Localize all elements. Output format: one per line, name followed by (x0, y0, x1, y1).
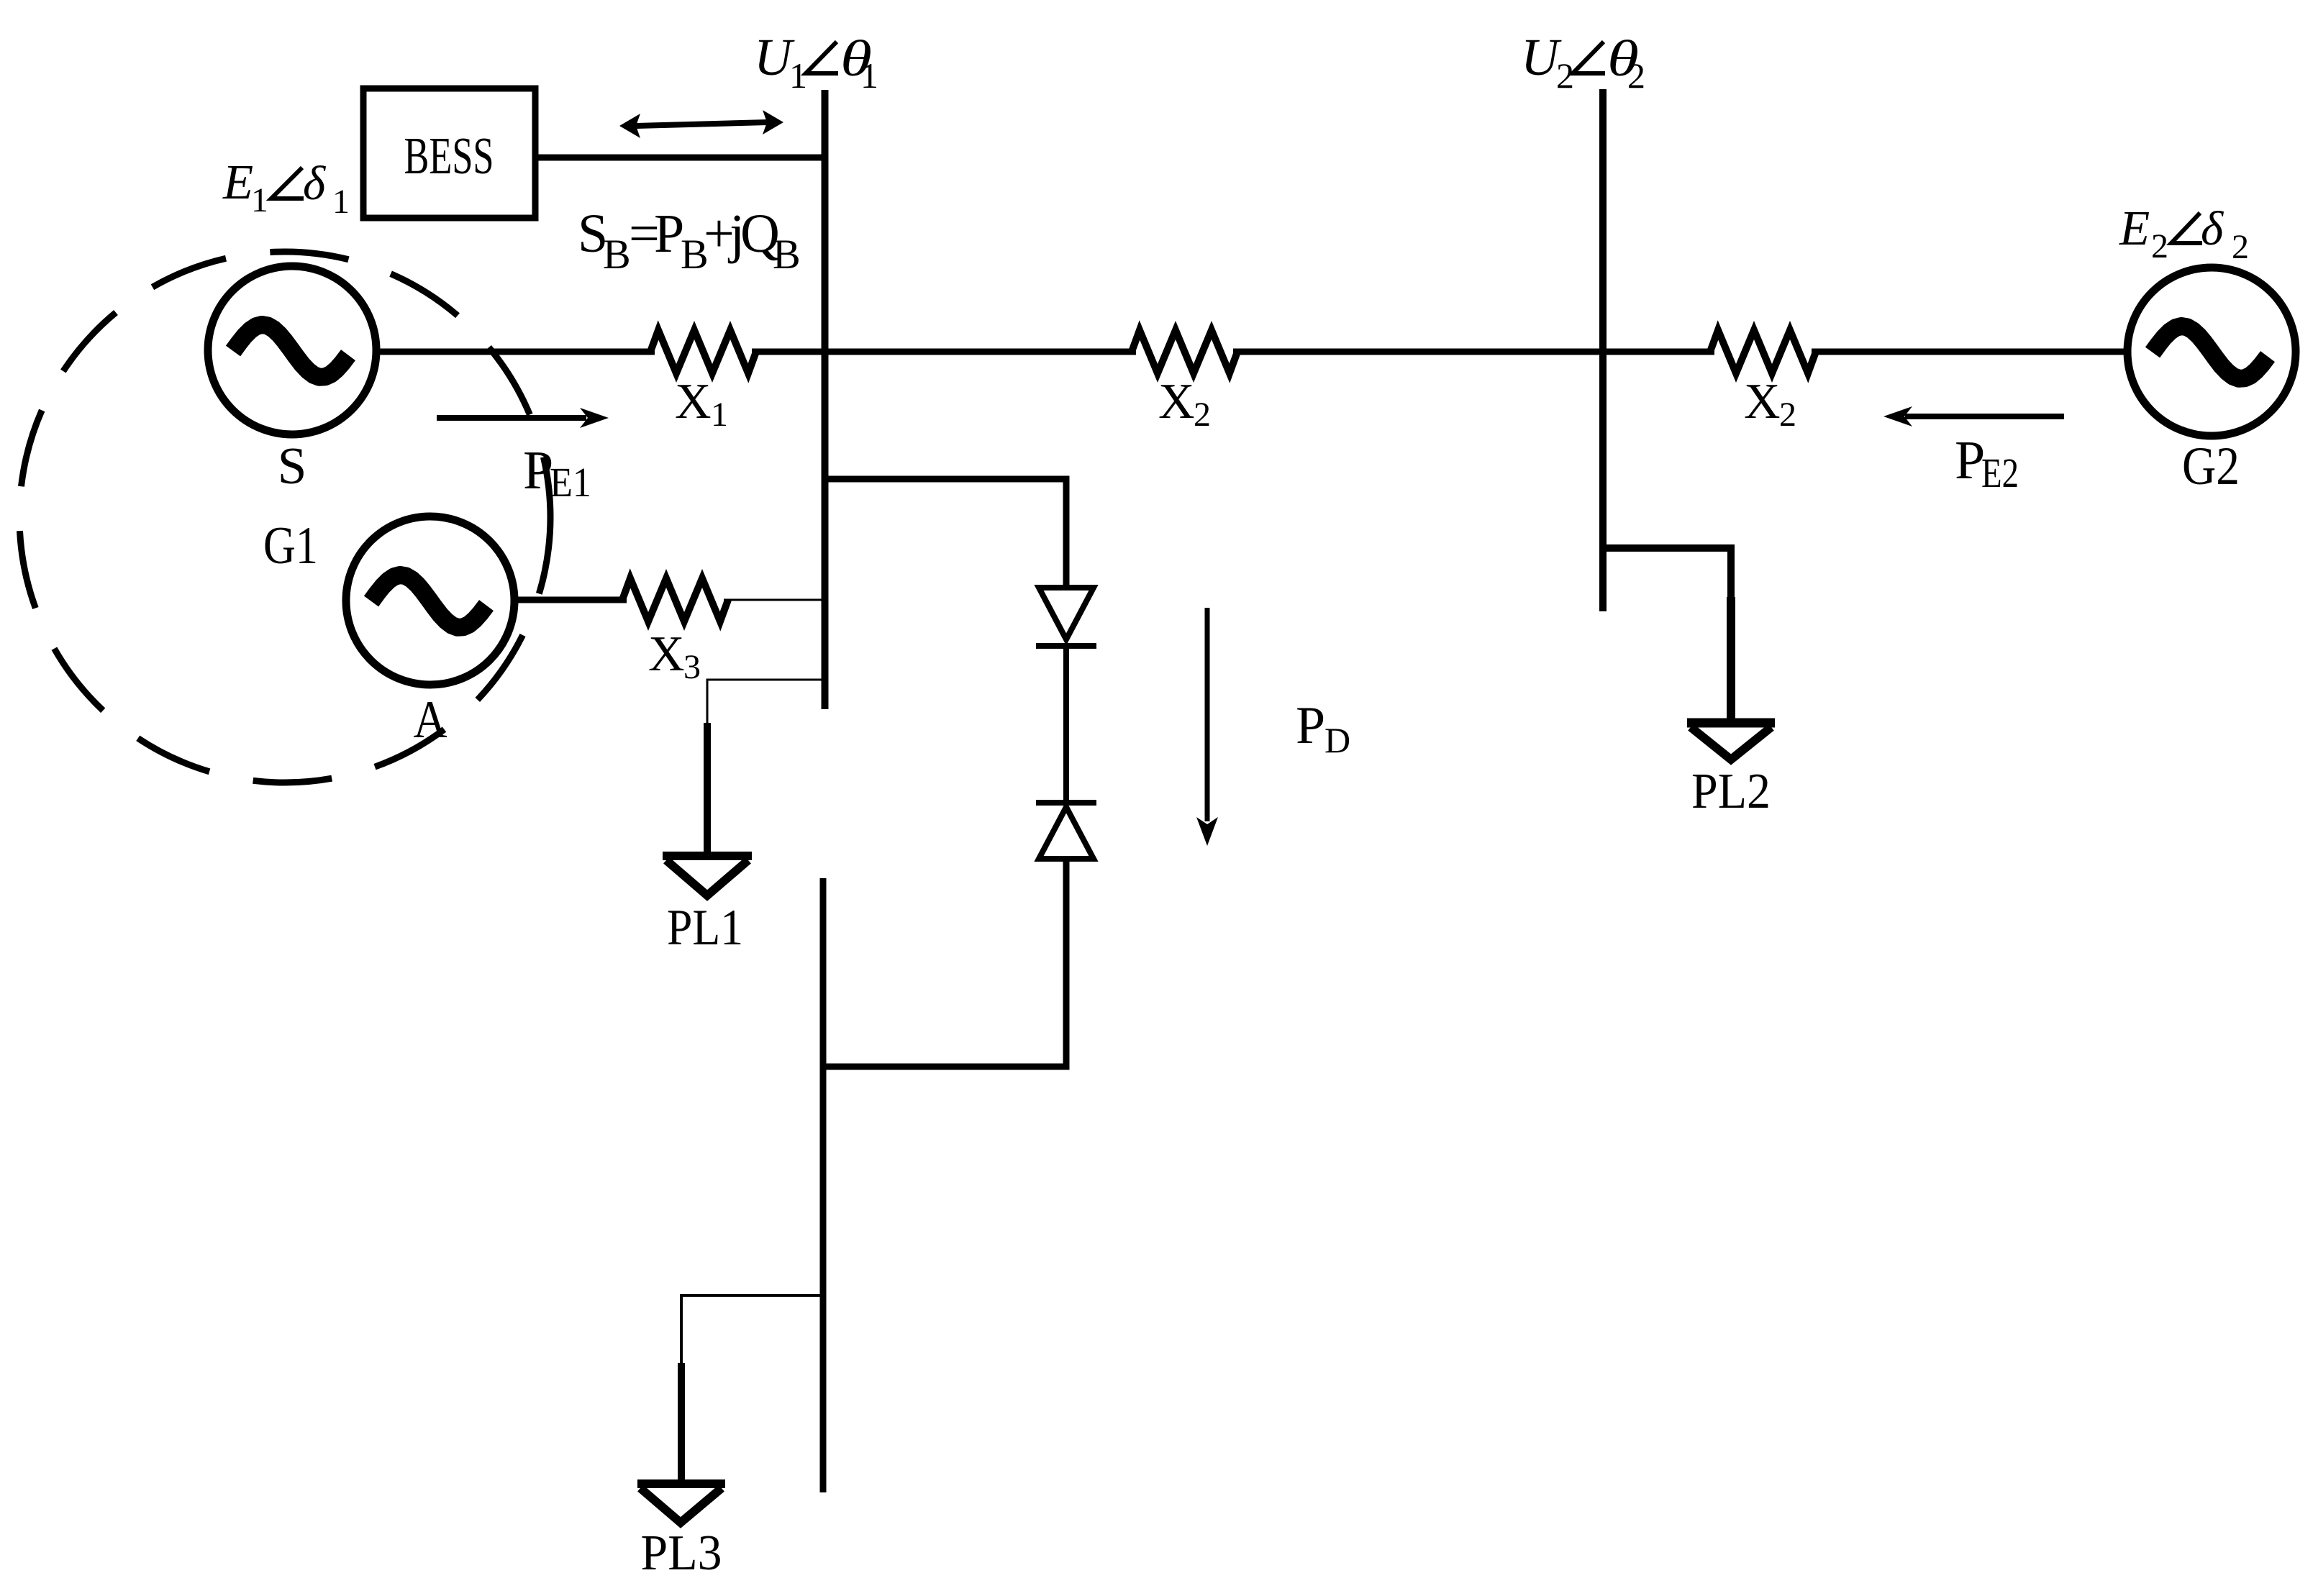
generator A circle (346, 516, 514, 685)
svg-text:1: 1 (251, 181, 268, 219)
label PL3 (641, 1526, 722, 1581)
wire X1 to X2 through bus1 (752, 349, 1136, 355)
load PL3 arrowhead (637, 1479, 725, 1488)
svg-text:P: P (523, 440, 553, 501)
svg-text:PL2: PL2 (1691, 764, 1771, 819)
load PL2 arrowhead (1687, 719, 1775, 728)
svg-text:2: 2 (1627, 55, 1645, 96)
angle symbol of E1 (271, 168, 304, 199)
label X2 (left) (1158, 374, 1211, 434)
resistor X2 (right) (1710, 330, 1816, 373)
generator G2 circle (2127, 268, 2296, 436)
svg-text:1: 1 (332, 183, 350, 221)
wire bus1 to diode branch (top) (827, 479, 1066, 590)
sine wave of S (233, 325, 348, 378)
diode D2 (pointing up) (1039, 807, 1094, 859)
wire bus2 to PL2 (1605, 548, 1731, 598)
generator S circle (208, 266, 376, 434)
svg-text:B: B (773, 231, 801, 278)
resistor X3 (622, 578, 728, 621)
svg-text:1: 1 (860, 55, 878, 96)
wire S to X1 (375, 349, 655, 355)
label PL2 (1691, 764, 1771, 819)
svg-text:E: E (222, 155, 253, 209)
cathode bar of D1 (1036, 643, 1096, 649)
svg-text:PL1: PL1 (667, 900, 743, 956)
label G1 (263, 516, 318, 575)
label PL1 (667, 900, 743, 956)
angle symbol of U2 (1573, 42, 1605, 73)
label X3 (648, 626, 701, 686)
label S (278, 437, 307, 495)
thin tap wire for PL3 (681, 1295, 823, 1365)
svg-text:PL3: PL3 (641, 1526, 722, 1581)
sine wave of A (371, 575, 486, 628)
svg-text:X: X (675, 374, 712, 429)
label G2 (2182, 437, 2240, 496)
svg-text:δ: δ (303, 157, 327, 210)
thin wire X3 to bus1 (724, 599, 822, 601)
resistor X2 (left) (1132, 330, 1237, 373)
bidirectional arrow S_B (636, 122, 768, 126)
label X1 (675, 374, 728, 434)
svg-text:E1: E1 (550, 459, 591, 506)
label A (414, 690, 447, 749)
svg-text:P: P (654, 204, 684, 264)
arrow P_E1 (437, 415, 586, 421)
wire between diodes (1063, 643, 1069, 804)
sine wave of G2 (2153, 327, 2268, 379)
load PL2 arrow shaft (1727, 597, 1735, 719)
label P_D (1296, 696, 1350, 760)
svg-text:X: X (1744, 374, 1781, 429)
svg-text:A: A (414, 690, 447, 749)
resistor X1 (650, 330, 756, 373)
dashed boundary of G1 (19, 252, 550, 783)
svg-text:δ: δ (2201, 202, 2225, 255)
svg-text:P: P (1955, 430, 1985, 491)
svg-text:E2: E2 (1981, 450, 2019, 496)
label E2 angle delta2 (2119, 201, 2249, 266)
label P_E2 (1955, 430, 2019, 496)
label X2 (right) (1744, 374, 1796, 434)
wire X2 to bus 2 and onward (1233, 349, 1714, 355)
label S_B = P_B + jQ_B (578, 204, 801, 278)
svg-text:D: D (1324, 720, 1350, 760)
arrow P_D (1205, 608, 1210, 821)
angle symbol of E2 (2171, 213, 2202, 243)
wire BESS to bus 1 (535, 155, 824, 161)
svg-text:G2: G2 (2182, 437, 2240, 496)
load PL1 arrow shaft (704, 723, 711, 852)
svg-text:BESS: BESS (404, 127, 494, 185)
BESS label (404, 127, 494, 185)
svg-text:3: 3 (683, 648, 701, 686)
arrow P_E2 (1905, 414, 2064, 419)
label E1 angle delta1 (222, 155, 350, 221)
svg-text:G1: G1 (263, 516, 318, 575)
svg-text:P: P (1296, 696, 1325, 755)
load PL1 arrowhead (663, 852, 752, 860)
svg-text:X: X (648, 626, 685, 682)
bus U2 (vertical busbar 2) (1599, 89, 1607, 611)
svg-text:2: 2 (2151, 227, 2168, 265)
svg-text:S: S (278, 437, 307, 495)
svg-text:2: 2 (2232, 228, 2249, 266)
cathode bar of D2 (1036, 800, 1096, 806)
svg-text:2: 2 (1779, 396, 1796, 434)
load PL3 arrow shaft (678, 1363, 685, 1480)
angle symbol of U1 (806, 42, 838, 73)
svg-text:E: E (2119, 201, 2150, 255)
svg-text:B: B (603, 231, 631, 278)
bus U1 (vertical busbar 1) (822, 90, 829, 709)
wire X2 to G2 (1812, 349, 2129, 355)
svg-text:2: 2 (1194, 396, 1211, 434)
wire A to X3 (513, 597, 627, 603)
label P_E1 (523, 440, 591, 506)
BESS box (363, 88, 535, 218)
wire diodes to bus3 (bottom) (824, 857, 1066, 1067)
label U2 angle theta2 (1521, 28, 1645, 96)
label U1 angle theta1 (754, 28, 878, 96)
bus U3 (lower busbar) (820, 878, 827, 1492)
diode D1 (pointing down) (1039, 588, 1094, 639)
svg-text:X: X (1158, 374, 1195, 429)
svg-text:1: 1 (711, 396, 728, 434)
thin tap wire for PL1 (707, 680, 822, 725)
